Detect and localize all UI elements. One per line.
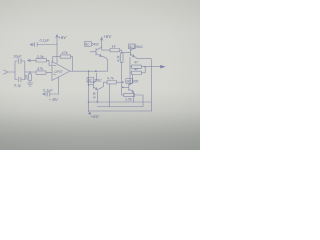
labels layer (13, 34, 144, 119)
input connector J1 (4, 70, 8, 74)
capacitor C4 0,1uF supply decoupling bottom (47, 92, 58, 96)
wire rejoin to node A (25, 61, 36, 80)
svg-text:+6V: +6V (91, 114, 100, 119)
junction dot output (144, 66, 146, 68)
bus wire 1 (89, 101, 152, 103)
capacitor C2 0,1u bottom branch (19, 77, 25, 82)
wire +6V rail to R5 (102, 47, 110, 50)
resistor R10 4,7k mid (107, 81, 117, 84)
wire vertical x=109.3 (108, 84, 110, 107)
svg-text:BC: BC (129, 45, 134, 49)
ground (27, 83, 33, 87)
arrow left top decoupling (30, 43, 35, 46)
wire mid vertical x=130 (129, 58, 131, 85)
junction dot Q4 base (88, 84, 90, 86)
output arrow (160, 65, 165, 68)
+6V supply arrow top-left (56, 35, 58, 45)
junction dot bus1 left (88, 101, 90, 103)
svg-text:0,1μF: 0,1μF (40, 39, 50, 43)
resistor R9 1,5k bottom (122, 94, 124, 96)
svg-text:4,7k: 4,7k (93, 92, 97, 99)
node A junction dot (29, 71, 31, 73)
resistor R6 4,7k vertical (121, 50, 123, 53)
arrow left bottom decoupling (43, 93, 48, 96)
svg-text:4,7k: 4,7k (117, 55, 121, 62)
transistor Q2 BC546C (130, 45, 134, 57)
svg-text:4,7k: 4,7k (107, 76, 114, 80)
label Q3 BU806 boxed (126, 79, 139, 84)
label Q2 BC546C boxed (128, 44, 144, 49)
label Q4 BC556C boxed (87, 78, 103, 83)
svg-text:− 6V: − 6V (49, 97, 59, 102)
wire input to split (8, 71, 15, 73)
svg-text:BU: BU (126, 79, 131, 83)
wire Q1 emitter jog (101, 56, 107, 71)
svg-text:546C: 546C (136, 45, 144, 49)
transistor Q4 BC556C (89, 73, 98, 90)
resistor R3 3,3k (36, 59, 47, 62)
svg-text:OP07: OP07 (54, 70, 63, 74)
resistor R7 47 output top (130, 66, 131, 68)
wire Q2 emitter to corner down (134, 57, 151, 111)
svg-text:806: 806 (133, 80, 139, 84)
feedback resistor R4 47k (60, 55, 70, 58)
svg-text:3,3k: 3,3k (37, 55, 45, 59)
wire feedback drop x=88.5 (88, 71, 90, 111)
bus wire 2 (97, 106, 143, 108)
svg-text:BC: BC (85, 42, 90, 46)
capacitor C3 0,1uF supply decoupling top (35, 42, 57, 46)
paper background (0, 0, 200, 150)
transistor Q1 BC546C (90, 47, 102, 56)
wire Q4 to R10 (99, 82, 108, 89)
junction dot Q3 base (122, 87, 124, 89)
resistor R1 1M vertical (29, 72, 31, 74)
svg-text:1M: 1M (25, 75, 29, 80)
arrow off-page left (28, 59, 31, 62)
bus wire 3 (89, 110, 152, 112)
op-amp U1 (52, 62, 70, 81)
svg-text:+6V: +6V (103, 34, 112, 39)
label Q1 BC546C boxed (84, 42, 100, 47)
svg-text:BC: BC (88, 78, 93, 82)
svg-text:0,1μ: 0,1μ (14, 84, 22, 88)
resistor R2 47k input (36, 71, 46, 74)
capacitor C1 10uF top branch (19, 59, 25, 64)
wire op-amp upper input stub (49, 60, 52, 65)
svg-text:1,5k: 1,5k (125, 98, 132, 102)
svg-text:10μF: 10μF (13, 55, 22, 59)
wire output node (141, 66, 160, 68)
wire Q2 base (122, 51, 131, 53)
junction output node B (88, 70, 90, 72)
wire Q3 emitter down (133, 92, 135, 102)
svg-text:0,1μF: 0,1μF (43, 89, 53, 93)
resistor R8 47 lower (130, 72, 131, 74)
transistor Q3 BU806 (123, 75, 134, 93)
resistor R5 1k (110, 49, 120, 52)
svg-text:+6V: +6V (58, 35, 67, 40)
wire op-amp output (70, 70, 108, 72)
wire branch split (15, 61, 18, 80)
junction dot R10 right (122, 81, 124, 83)
svg-text:546C: 546C (92, 43, 100, 47)
wire Q4 emitter down (96, 90, 98, 103)
svg-text:556C: 556C (94, 79, 102, 83)
wire op-amp V- pin (58, 77, 60, 94)
+6V supply arrow mid (101, 37, 103, 47)
wire op-amp V+ pin (56, 45, 58, 64)
+6V label arrow bottom (88, 111, 90, 115)
